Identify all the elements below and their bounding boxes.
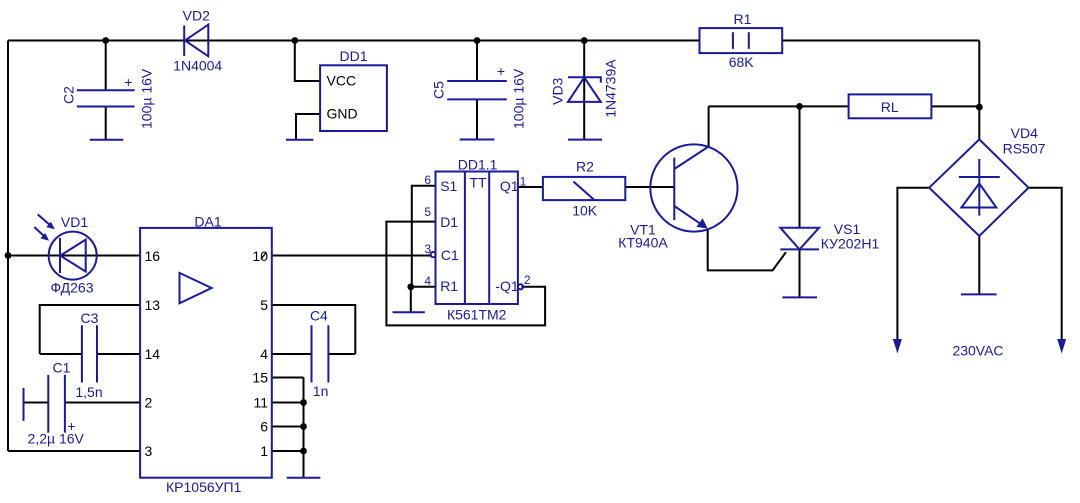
ground C2: [90, 139, 124, 141]
svg-text:VCC: VCC: [327, 73, 357, 89]
wire pin 4 through C4: [272, 353, 356, 355]
node VS1 anode junction: [796, 103, 803, 110]
svg-text:C3: C3: [81, 310, 99, 326]
svg-text:2: 2: [524, 273, 531, 287]
svg-text:16: 16: [145, 248, 161, 264]
wire DD1.1 ground stub: [410, 287, 412, 312]
wire GND of DD1: [296, 114, 320, 140]
resistor R2: [543, 159, 625, 219]
AC terminal arrow right: [1057, 339, 1066, 354]
svg-text:S1: S1: [440, 178, 457, 194]
svg-text:DD1: DD1: [339, 48, 367, 64]
svg-text:1N4004: 1N4004: [173, 58, 222, 74]
svg-text:5: 5: [260, 297, 268, 313]
svg-text:4: 4: [424, 274, 431, 288]
wire Q1 to R2: [518, 186, 543, 188]
svg-text:R1: R1: [734, 11, 752, 27]
svg-text:5: 5: [424, 205, 431, 219]
wire pin 2 through C1: [24, 402, 141, 404]
svg-text:RS507: RS507: [1003, 141, 1046, 157]
wire bridge right AC lead: [1029, 188, 1062, 347]
ground C5: [460, 139, 495, 141]
wire collector row to RL: [709, 105, 849, 107]
capacitor C1: [24, 360, 85, 447]
svg-text:15: 15: [252, 370, 268, 386]
svg-text:1n: 1n: [313, 383, 329, 399]
svg-text:11: 11: [253, 395, 268, 411]
diode VD2: [173, 8, 222, 74]
wire DD1.1 S1 input: [412, 186, 436, 287]
ground bridge: [961, 293, 997, 295]
svg-text:D1: D1: [440, 214, 458, 230]
svg-text:C1: C1: [53, 360, 71, 376]
svg-text:230VAC: 230VAC: [952, 343, 1003, 359]
capacitor C4: [310, 308, 328, 400]
wire pin 10 to DD1.1 clock input: [272, 255, 432, 257]
svg-text:1: 1: [260, 443, 268, 459]
wire photodiode row to pin 16: [8, 255, 140, 257]
svg-text:VD4: VD4: [1011, 125, 1038, 141]
svg-text:6: 6: [424, 173, 431, 187]
capacitor C3: [75, 310, 102, 400]
svg-text:68K: 68K: [729, 54, 755, 70]
wire VT1 collector up: [708, 106, 710, 146]
svg-text:ФД263: ФД263: [50, 280, 93, 296]
node photodiode tap on left rail: [5, 252, 12, 259]
svg-text:VD1: VD1: [61, 214, 88, 230]
node C2 tap: [102, 37, 109, 44]
ground DD1: [286, 139, 313, 141]
node RL right junction: [976, 104, 983, 111]
wire RL to right vertical: [931, 105, 979, 107]
wire left rail vertical: [7, 41, 9, 452]
node VCC tap: [291, 37, 298, 44]
wire C5 vertical: [476, 41, 478, 140]
node pin 11 junction: [300, 399, 307, 406]
wire top rail left segment: [8, 40, 700, 42]
node pin 6 junction: [300, 423, 307, 430]
svg-text:13: 13: [145, 297, 161, 313]
svg-text:R1: R1: [440, 278, 458, 294]
wire VD3 vertical: [583, 41, 585, 140]
resistor R1: [700, 11, 783, 70]
resistor RL: [849, 94, 932, 118]
wire DD1.1 R1 input: [411, 286, 436, 288]
svg-text:100µ 16V: 100µ 16V: [511, 68, 527, 129]
wire top rail right segment after R1: [782, 40, 979, 42]
wire VS1 anode vertical: [799, 106, 801, 227]
wire VT1 emitter to VS1 gate: [708, 229, 786, 270]
svg-text:RL: RL: [881, 99, 899, 115]
svg-text:100µ 16V: 100µ 16V: [139, 68, 155, 129]
svg-text:+: +: [124, 74, 132, 90]
svg-text:КТ940А: КТ940А: [618, 235, 668, 251]
svg-text:VD2: VD2: [183, 8, 210, 24]
node C5 tap: [474, 37, 481, 44]
wire C2 vertical: [105, 41, 107, 140]
svg-text:КР1056УП1: КР1056УП1: [166, 479, 242, 495]
wire bottom left to pin 3: [8, 450, 140, 452]
svg-text:R2: R2: [576, 159, 594, 175]
wire ground bus right of DA1: [303, 378, 305, 478]
wire pin 1 stub: [272, 450, 304, 452]
op-amp DD1 supply box: [320, 48, 387, 131]
wire DD1.1 feedback -Q1 to D1: [386, 222, 545, 326]
svg-text:10: 10: [252, 248, 268, 264]
bridge rectifier VD4: [929, 125, 1045, 236]
wire pin 13 loop: [40, 305, 140, 354]
svg-text:К561ТМ2: К561ТМ2: [447, 307, 507, 323]
photodiode VD1: [34, 214, 96, 296]
ground DD1.1: [393, 311, 425, 313]
svg-text:+: +: [497, 63, 505, 79]
node pin 1 junction: [300, 448, 307, 455]
svg-text:1,5n: 1,5n: [75, 384, 102, 400]
svg-text:10K: 10K: [572, 203, 598, 219]
svg-text:1N4739A: 1N4739A: [603, 59, 619, 118]
svg-text:14: 14: [145, 346, 161, 362]
svg-text:DD1.1: DD1.1: [458, 157, 498, 173]
svg-text:6: 6: [260, 419, 268, 435]
svg-text:C4: C4: [310, 308, 328, 324]
zener diode VD3: [550, 59, 619, 118]
op-amp DA1: [140, 214, 272, 496]
svg-text:КУ202Н1: КУ202Н1: [821, 236, 880, 252]
svg-text:3: 3: [424, 242, 431, 256]
transistor VT1: [618, 144, 737, 250]
svg-text:4: 4: [260, 346, 268, 362]
svg-text:1: 1: [520, 175, 527, 189]
node VD3 tap: [581, 37, 588, 44]
wire pin 11 stub: [272, 402, 304, 404]
wire pin 15 stub: [272, 377, 304, 379]
svg-text:TT: TT: [470, 174, 488, 190]
svg-text:Q1: Q1: [500, 178, 519, 194]
svg-text:3: 3: [145, 443, 153, 459]
svg-text:GND: GND: [327, 106, 358, 122]
node DD1.1 S1-R1 ground junction: [407, 283, 414, 290]
svg-text:DA1: DA1: [194, 214, 221, 230]
capacitor C5: [431, 63, 527, 129]
wire R2 to VT1 base: [625, 186, 674, 188]
thyristor VS1: [780, 221, 879, 252]
svg-text:2,2µ 16V: 2,2µ 16V: [28, 431, 85, 447]
wire pin 5 loop: [272, 305, 356, 354]
svg-text:C2: C2: [61, 86, 77, 104]
svg-text:C5: C5: [431, 81, 447, 99]
svg-text:C1: C1: [441, 247, 459, 263]
wire bridge bottom to ground: [978, 236, 980, 294]
wire VS1 cathode to ground: [799, 249, 801, 297]
wire VCC supply to DD1: [295, 41, 320, 82]
ground VS1: [782, 296, 817, 298]
svg-text:2: 2: [145, 395, 153, 411]
flip-flop DD1.1: [424, 157, 531, 323]
svg-text:VD3: VD3: [550, 77, 566, 104]
wire right vertical from rail to bridge: [978, 41, 980, 140]
svg-text:-Q1: -Q1: [495, 278, 519, 294]
ground VD3: [568, 139, 602, 141]
AC terminal arrow left: [893, 339, 902, 354]
wire pin 14 through C3: [40, 353, 140, 355]
ground DA1 bus: [287, 477, 321, 479]
wire bridge left AC lead: [897, 188, 929, 347]
wire pin 6 stub: [272, 426, 304, 428]
capacitor C2: [61, 68, 155, 129]
